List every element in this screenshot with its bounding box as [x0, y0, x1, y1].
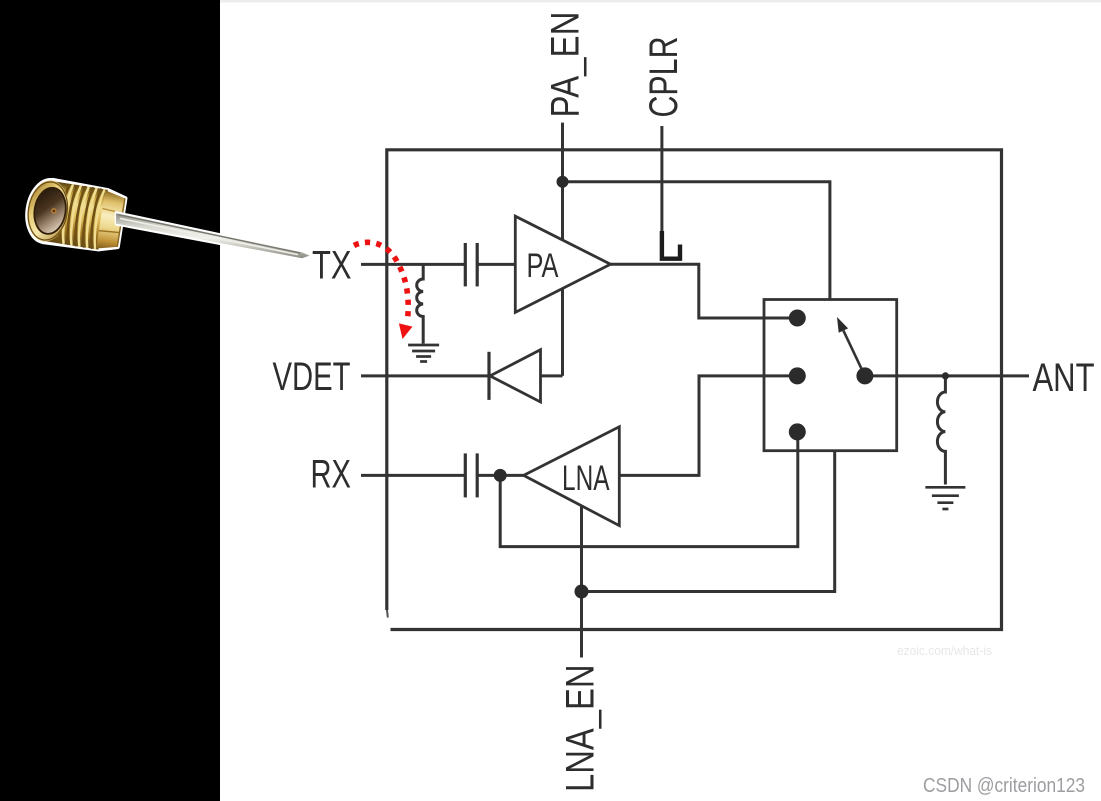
- wire RX output: [361, 474, 465, 477]
- ground ANT: [925, 487, 965, 509]
- switch common port: [856, 367, 873, 384]
- wire PA_EN to switch control: [563, 182, 830, 300]
- svg-text:RX: RX: [311, 453, 352, 497]
- black side panel: [0, 0, 220, 801]
- RF switch box: [764, 300, 897, 451]
- ground TX: [408, 345, 439, 362]
- svg-text:CPLR: CPLR: [642, 37, 686, 118]
- wire diode to bias: [541, 374, 563, 377]
- svg-text:PA_EN: PA_EN: [544, 12, 588, 118]
- wire LNA input from switch port2: [619, 376, 797, 476]
- diode D1 cathode bar: [487, 352, 490, 400]
- svg-text:VDET: VDET: [273, 355, 351, 399]
- capacitor C2 plates: [465, 453, 477, 497]
- switch port 1: [789, 310, 806, 327]
- top edge shading: [220, 0, 1101, 3]
- wire LNA_EN bias: [580, 495, 583, 658]
- node RX junction: [494, 469, 507, 482]
- svg-text:PA: PA: [527, 247, 559, 285]
- wire C1 to PA: [477, 263, 515, 266]
- wire C2 to LNA: [477, 474, 523, 477]
- svg-text:TX: TX: [312, 244, 352, 288]
- wire RX bypass to switch port3: [500, 432, 798, 547]
- svg-text:LNA_EN: LNA_EN: [559, 665, 603, 793]
- outer block boundary: [387, 150, 1002, 630]
- inductor L1 shunt: [417, 264, 424, 343]
- switch port 2: [789, 367, 806, 384]
- wire ANT: [865, 374, 1029, 377]
- switch wiper arm: [843, 331, 865, 376]
- wire VDET: [361, 374, 489, 377]
- svg-text:LNA: LNA: [562, 459, 610, 498]
- capacitor C1 plates: [465, 243, 477, 286]
- red annotation arrow: [354, 242, 413, 339]
- wire CPLR: [660, 126, 663, 233]
- node ANT junction: [942, 372, 949, 379]
- switch port 3: [789, 423, 806, 440]
- wire PA_EN bias: [561, 123, 564, 376]
- node PA_EN junction: [557, 176, 569, 188]
- wire TX input: [361, 263, 465, 266]
- svg-text:CSDN @criterion123: CSDN @criterion123: [923, 774, 1085, 797]
- svg-text:ezoic.com/what-is: ezoic.com/what-is: [897, 643, 992, 658]
- svg-text:ANT: ANT: [1033, 356, 1095, 400]
- switch arrow head: [837, 317, 848, 333]
- wire PA output to switch port1: [611, 264, 798, 318]
- diode D1 body: [490, 350, 541, 402]
- coupler tap: [662, 231, 680, 259]
- inductor L2 antenna shunt: [937, 376, 945, 485]
- center pin probe: [116, 212, 310, 258]
- SMA connector photo: [23, 177, 309, 259]
- op-amp LNA triangle: [524, 427, 620, 526]
- op-amp PA triangle: [515, 216, 610, 312]
- node LNA_EN junction: [575, 585, 589, 599]
- wire LNA_EN to switch control: [582, 451, 835, 592]
